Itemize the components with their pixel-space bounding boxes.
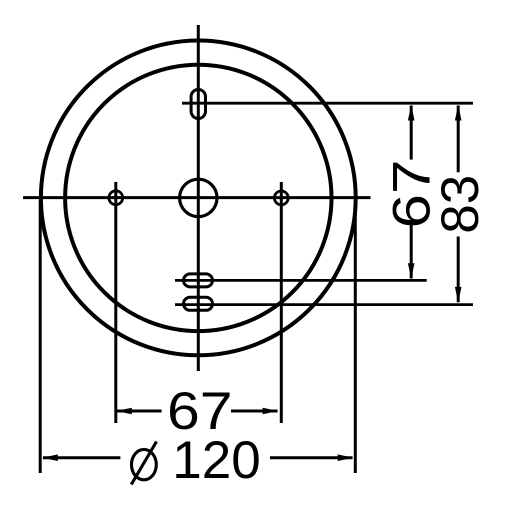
top slot (191, 90, 205, 119)
svg-text:120: 120 (172, 431, 260, 490)
arrowhead up (83 dim) (455, 105, 462, 121)
arrowhead down (83 dim) (455, 287, 462, 303)
horizontal centerline (23, 196, 371, 199)
arrowhead left (φ120 dim) (42, 454, 58, 461)
left hole vertical line / extension (114, 182, 117, 423)
φ120 right extension line (354, 200, 357, 473)
right mounting hole (274, 191, 288, 205)
83 right vertical dimension line top segment (457, 106, 460, 173)
svg-text:83: 83 (431, 175, 490, 234)
arrowhead up (67 dim) (408, 105, 415, 121)
φ120 dimension line left segment (43, 456, 120, 459)
arrowhead down (67 dim) (408, 263, 415, 279)
bottom slot1 horizontal reference line (175, 279, 427, 282)
left mounting hole (109, 191, 123, 205)
bottom slot 2 (184, 297, 213, 310)
vertical centerline (197, 25, 200, 371)
center hole (180, 179, 217, 216)
bottom slot2 horizontal reference line (175, 303, 473, 306)
inner circle (65, 65, 331, 331)
φ120 left extension line (39, 200, 42, 473)
right hole vertical line / extension (280, 182, 283, 423)
83 right vertical dimension line bottom segment (457, 237, 460, 303)
φ120 dimension line right segment (270, 456, 353, 459)
phi symbol of φ120 (131, 442, 156, 485)
outer circle (mounting plate outline, φ120) (41, 41, 356, 356)
arrowhead right (φ120 dim) (338, 454, 354, 461)
arrowhead right (67 bottom dim) (263, 408, 279, 415)
arrowhead left (67 bottom dim) (116, 408, 132, 415)
67 bottom dimension line left segment (117, 410, 162, 413)
67 bottom dimension line right segment (231, 410, 278, 413)
67 right vertical dimension line top segment (410, 106, 413, 160)
67 right vertical dimension line bottom segment (410, 225, 413, 279)
top slot horizontal reference line (182, 102, 473, 105)
bottom slot 1 (184, 274, 213, 287)
